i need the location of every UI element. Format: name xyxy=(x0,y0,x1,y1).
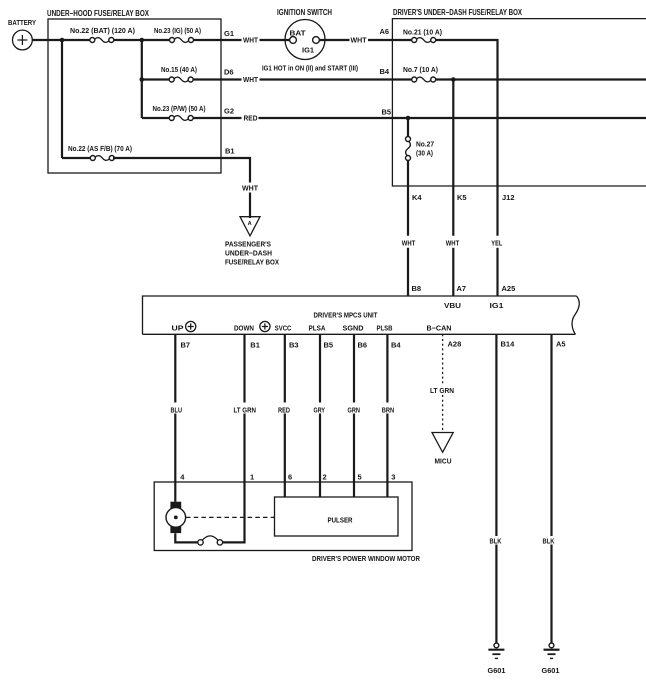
svg-text:B4: B4 xyxy=(380,67,390,76)
svg-text:RED: RED xyxy=(244,114,259,123)
svg-text:WHT: WHT xyxy=(351,36,367,45)
svg-text:A28: A28 xyxy=(448,340,462,349)
svg-text:No.23 (P/W) (50 A): No.23 (P/W) (50 A) xyxy=(153,104,206,113)
svg-text:B1: B1 xyxy=(225,147,235,156)
ground G601 right xyxy=(544,643,560,658)
svg-text:BATTERY: BATTERY xyxy=(8,18,36,27)
svg-text:2: 2 xyxy=(323,472,327,481)
svg-text:6: 6 xyxy=(288,472,292,481)
svg-text:DRIVER'S UNDER−DASH FUSE/RELAY: DRIVER'S UNDER−DASH FUSE/RELAY BOX xyxy=(393,8,523,17)
driver's power window motor box xyxy=(154,482,412,551)
svg-text:LT GRN: LT GRN xyxy=(234,405,257,414)
svg-text:5: 5 xyxy=(358,472,362,481)
junction node K4 top xyxy=(406,116,411,121)
wire row1 to WHT label xyxy=(194,39,242,41)
fuse No.21 (10 A) xyxy=(412,38,436,43)
wire A28 dashed B-CAN xyxy=(442,334,444,431)
svg-text:DRIVER'S POWER WINDOW MOTOR: DRIVER'S POWER WINDOW MOTOR xyxy=(312,554,420,563)
svg-text:GRY: GRY xyxy=(314,405,326,414)
svg-text:B14: B14 xyxy=(501,340,516,349)
svg-text:SVCC: SVCC xyxy=(275,324,292,333)
ignition switch xyxy=(277,8,332,60)
wire K4 vertical lower xyxy=(407,160,409,296)
svg-text:WHT: WHT xyxy=(243,75,258,84)
svg-text:BLK: BLK xyxy=(543,537,555,546)
wire K5 vertical xyxy=(452,80,454,297)
up motor symbol xyxy=(186,321,196,331)
wire to driver's box A6 xyxy=(368,39,412,41)
svg-text:D6: D6 xyxy=(224,68,234,77)
fuse No.22 (BAT) (120 A) xyxy=(90,38,114,43)
svg-text:B−CAN: B−CAN xyxy=(427,324,452,333)
junction node row2 x141.8 xyxy=(140,77,145,82)
svg-text:BAT: BAT xyxy=(290,29,306,38)
svg-text:No.22 (BAT) (120 A): No.22 (BAT) (120 A) xyxy=(70,26,135,35)
junction node at x62 row1 xyxy=(60,38,65,43)
svg-text:1: 1 xyxy=(250,472,254,481)
svg-text:IG1: IG1 xyxy=(490,301,504,310)
pulser box xyxy=(275,497,399,536)
dashed mechanical link motor to pulser xyxy=(186,516,274,518)
wire B3 vertical xyxy=(284,334,286,497)
svg-text:No.7 (10 A): No.7 (10 A) xyxy=(403,65,438,74)
driver's under-dash fuse/relay box xyxy=(392,19,646,186)
svg-text:B5: B5 xyxy=(382,108,392,117)
svg-text:G601: G601 xyxy=(488,666,506,675)
driver's MPCS unit box xyxy=(143,296,577,334)
under-hood fuse/relay box xyxy=(48,19,221,173)
svg-text:PLSA: PLSA xyxy=(309,324,326,333)
connector triangle to MICU xyxy=(432,433,453,453)
svg-text:FUSE/RELAY BOX: FUSE/RELAY BOX xyxy=(225,258,279,267)
svg-text:GRN: GRN xyxy=(348,405,361,414)
svg-text:No.15 (40 A): No.15 (40 A) xyxy=(161,65,197,74)
motor M1 xyxy=(166,502,186,533)
connector A triangle to passenger's box xyxy=(240,217,260,236)
wire row3 left xyxy=(142,117,170,119)
wire row2 to WHT xyxy=(193,78,241,80)
wire A5 vertical xyxy=(550,334,552,643)
svg-text:VBU: VBU xyxy=(444,301,461,310)
fuse No.22 (AS F/B) (70 A) xyxy=(90,156,114,161)
svg-text:IG1 HOT in ON (II) and START (: IG1 HOT in ON (II) and START (III) xyxy=(262,64,358,73)
svg-text:B6: B6 xyxy=(358,341,368,350)
wire J12 lower segment xyxy=(496,248,498,296)
wire B14 vertical xyxy=(495,334,497,643)
fuse No.23 (P/W) (50 A) xyxy=(169,116,193,121)
svg-text:WHT: WHT xyxy=(402,239,416,248)
wire row1 mid xyxy=(114,39,169,41)
svg-text:UP: UP xyxy=(172,324,184,333)
svg-text:BRN: BRN xyxy=(382,405,395,414)
wire row2 left xyxy=(142,78,170,80)
svg-text:A6: A6 xyxy=(380,27,390,36)
junction node K5 top xyxy=(451,77,456,82)
svg-text:PULSER: PULSER xyxy=(328,516,353,525)
svg-text:No.27: No.27 xyxy=(416,140,434,149)
svg-text:B5: B5 xyxy=(324,341,334,350)
svg-text:B7: B7 xyxy=(181,341,191,350)
MPCS box torn right edge xyxy=(572,296,579,334)
svg-text:B1: B1 xyxy=(250,341,260,350)
fuse No.15 (40 A) xyxy=(169,77,193,82)
svg-text:WHT: WHT xyxy=(243,36,258,45)
svg-text:No.21 (10 A): No.21 (10 A) xyxy=(403,28,442,37)
fuse No.7 (10 A) xyxy=(412,77,436,82)
svg-text:BLU: BLU xyxy=(171,405,183,414)
svg-text:B8: B8 xyxy=(412,284,422,293)
svg-text:WHT: WHT xyxy=(242,184,258,193)
svg-text:MICU: MICU xyxy=(435,457,452,466)
svg-text:UNDER−HOOD FUSE/RELAY BOX: UNDER−HOOD FUSE/RELAY BOX xyxy=(47,9,150,18)
svg-text:A5: A5 xyxy=(556,340,566,349)
ground G601 left xyxy=(488,643,504,658)
wire row2 to driver's box B4 xyxy=(260,78,412,80)
svg-text:(30 A): (30 A) xyxy=(416,148,433,157)
svg-text:No.23 (IG) (50 A): No.23 (IG) (50 A) xyxy=(154,26,201,35)
svg-text:IG1: IG1 xyxy=(302,46,314,55)
wire K4 vertical upper xyxy=(407,118,409,137)
svg-text:No.22 (AS F/B) (70 A): No.22 (AS F/B) (70 A) xyxy=(68,144,132,153)
svg-text:PASSENGER'S: PASSENGER'S xyxy=(225,240,271,249)
fuse No.23 (IG) (50 A) xyxy=(170,38,194,43)
wire B6 vertical xyxy=(353,334,355,497)
wire motor to breaker xyxy=(175,533,197,542)
battery xyxy=(8,18,36,50)
svg-text:RED: RED xyxy=(278,405,290,414)
svg-text:A25: A25 xyxy=(502,284,516,293)
svg-text:WHT: WHT xyxy=(446,239,460,248)
wire A6 fuse output to corner xyxy=(436,40,498,236)
circuit breaker xyxy=(198,536,223,545)
wire B1 drop lower xyxy=(249,193,251,219)
svg-text:BLK: BLK xyxy=(490,537,502,546)
wire ignition to A6 xyxy=(320,39,350,41)
svg-text:SGND: SGND xyxy=(343,324,365,333)
svg-text:LT GRN: LT GRN xyxy=(430,386,454,395)
wire row3 right to edge xyxy=(259,117,646,119)
svg-text:DRIVER'S MPCS UNIT: DRIVER'S MPCS UNIT xyxy=(314,311,378,320)
fuse No.27 (30 A) vertical xyxy=(406,137,411,161)
wire WHT to ignition switch xyxy=(260,39,290,41)
svg-text:B4: B4 xyxy=(391,341,401,350)
svg-text:A: A xyxy=(248,221,252,227)
wire row4 left xyxy=(62,157,92,159)
down motor symbol xyxy=(260,321,270,331)
svg-text:G1: G1 xyxy=(224,29,234,38)
wire row3 to RED xyxy=(193,117,241,119)
wire row4 to corner and down xyxy=(113,158,250,183)
svg-text:IGNITION SWITCH: IGNITION SWITCH xyxy=(277,8,332,17)
wire B7 vertical xyxy=(174,334,176,502)
wire row2 right to edge xyxy=(436,78,646,80)
svg-text:3: 3 xyxy=(391,472,395,481)
svg-text:DOWN: DOWN xyxy=(234,324,254,333)
wire vertical bus x141.8 xyxy=(141,40,143,118)
svg-text:YEL: YEL xyxy=(491,239,502,248)
svg-text:A7: A7 xyxy=(457,284,467,293)
svg-text:J12: J12 xyxy=(502,193,515,202)
svg-text:K4: K4 xyxy=(412,193,422,202)
svg-text:UNDER−DASH: UNDER−DASH xyxy=(225,249,272,258)
svg-text:PLSB: PLSB xyxy=(377,324,393,333)
svg-text:G601: G601 xyxy=(542,666,560,675)
wire B4 vertical xyxy=(386,334,388,497)
svg-text:K5: K5 xyxy=(457,193,467,202)
svg-text:G2: G2 xyxy=(224,107,234,116)
svg-text:B3: B3 xyxy=(289,341,299,350)
wire B5 vertical xyxy=(319,334,321,497)
junction node at x141.8 row1 xyxy=(140,38,145,43)
wire B1 vertical xyxy=(222,334,244,542)
wire battery to fuse No.22 row1 xyxy=(33,39,90,41)
wire vertical bus x62 xyxy=(61,40,63,158)
